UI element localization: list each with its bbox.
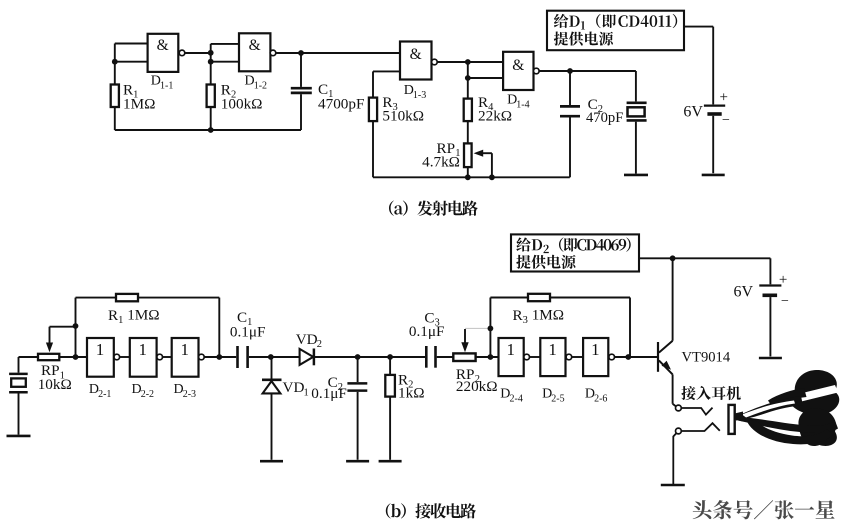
svg-text:1-2: 1-2 xyxy=(254,80,267,91)
svg-text:R3​ 1MΩ: R3​ 1MΩ xyxy=(513,307,565,326)
svg-text:1: 1 xyxy=(507,340,516,359)
svg-text:22kΩ: 22kΩ xyxy=(478,108,512,125)
svg-text:510kΩ: 510kΩ xyxy=(382,108,424,125)
wire - emitter down xyxy=(673,374,676,406)
wire - D1-3 out to D1-4 xyxy=(437,62,503,99)
svg-text:10kΩ: 10kΩ xyxy=(38,376,72,393)
power wire from box1 xyxy=(684,27,713,105)
jack contact 2 xyxy=(681,423,719,431)
label D2-4 xyxy=(500,386,523,404)
wire - RP2 to D2-4 xyxy=(476,356,499,358)
wire - D1-1 input feedback vertical xyxy=(115,44,147,131)
wire - feedback vertical left xyxy=(75,298,77,357)
svg-text:1-4: 1-4 xyxy=(516,100,529,111)
wire - D2-6 out to base xyxy=(615,356,657,358)
svg-text:1-3: 1-3 xyxy=(413,90,426,101)
headphone plug xyxy=(729,405,735,434)
wire - feedback2 down right xyxy=(629,298,631,358)
gate U D2-3 (inverter) xyxy=(172,338,205,377)
node - C2 tap (bottom) xyxy=(355,354,361,360)
jack terminal 1 xyxy=(676,405,682,411)
label VT9014 xyxy=(682,349,731,365)
svg-text:−: − xyxy=(781,294,789,309)
wire - D1-4 out to buzzer xyxy=(539,70,636,72)
svg-text:&: & xyxy=(157,37,169,54)
gate U D1-3 (NAND) xyxy=(400,42,437,80)
label D2-6 xyxy=(585,386,608,404)
text box2 line1 xyxy=(516,238,630,254)
resistor R3 (fb bottom) xyxy=(490,294,630,301)
svg-text:1: 1 xyxy=(304,387,309,398)
gate U D1-1 (NAND) xyxy=(148,34,185,72)
microphone BM xyxy=(9,357,28,435)
node - VD1 tap xyxy=(268,354,274,360)
svg-text:2: 2 xyxy=(317,339,322,350)
wire - D1-3 second input via R3 xyxy=(373,71,400,97)
svg-text:2-5: 2-5 xyxy=(551,393,564,404)
label D2-3 xyxy=(174,382,197,400)
label R2 1k xyxy=(398,372,424,402)
svg-text:1MΩ: 1MΩ xyxy=(123,95,155,112)
node - C1 tap xyxy=(298,50,304,56)
resistor R3 (top) xyxy=(369,98,377,122)
wire - C3 to RP2 xyxy=(437,356,454,358)
terminal bar - buzzer xyxy=(624,174,648,177)
label D2-5 xyxy=(542,386,565,404)
terminal bar - microphone xyxy=(7,435,31,438)
svg-text:+: + xyxy=(779,272,787,288)
svg-text:&: & xyxy=(249,37,261,54)
terminal bar - jack xyxy=(661,484,685,487)
jack terminal 2 xyxy=(676,428,682,434)
terminal bar - battery B2 xyxy=(759,357,782,360)
svg-text:2-2: 2-2 xyxy=(141,389,154,400)
svg-text:4700pF: 4700pF xyxy=(318,96,364,113)
gate U D1-2 (NAND) xyxy=(239,33,276,71)
resistor R2 xyxy=(207,85,215,108)
wire - mic to RP1 xyxy=(19,356,39,358)
label 6V battery1 xyxy=(683,89,730,128)
label C1 4700pF xyxy=(318,81,364,112)
watermark toutiao zhang yixing xyxy=(693,500,835,519)
caption (a) xyxy=(389,201,478,216)
label VD1 xyxy=(283,379,309,398)
node - feedback tap left xyxy=(73,323,79,360)
potentiometer RP2 xyxy=(453,353,475,361)
label C2 0.1uF (bottom) xyxy=(311,374,347,402)
wire - C1 to VD2 xyxy=(249,356,300,358)
text box1 line1 xyxy=(554,14,677,30)
node - C2 tap xyxy=(567,68,573,74)
label 6V battery2 xyxy=(734,272,790,309)
wiper RP1b arrow xyxy=(46,327,76,353)
battery B1 6V xyxy=(704,106,725,174)
headphone earpiece art xyxy=(735,370,840,446)
wire - feedback down right xyxy=(218,298,220,357)
label RP2 220k xyxy=(456,366,498,395)
svg-text:−: − xyxy=(722,113,730,128)
capacitor C2 (bottom) xyxy=(347,357,367,460)
svg-text:1: 1 xyxy=(591,340,600,359)
node - supply tap xyxy=(670,255,676,261)
label R3 510k xyxy=(382,94,424,125)
svg-text:2-3: 2-3 xyxy=(183,389,196,400)
label D1-1 xyxy=(151,73,174,91)
wire gap 4 xyxy=(530,356,541,358)
wire - R2 to C3 xyxy=(390,356,425,358)
svg-text:VT9014: VT9014 xyxy=(682,349,731,365)
diode VD1 (shunt) xyxy=(262,357,282,460)
wire gap 5 xyxy=(572,356,583,358)
wire - VD2 to C2 xyxy=(315,356,358,358)
svg-text:1kΩ: 1kΩ xyxy=(398,385,424,402)
resistor R4 xyxy=(464,99,472,122)
gate U D2-4 (inverter) xyxy=(499,338,530,376)
svg-text:0.1μF: 0.1μF xyxy=(230,324,266,341)
text box2 line2 xyxy=(516,255,575,269)
svg-text:100kΩ: 100kΩ xyxy=(221,95,263,112)
label jieru erji xyxy=(681,386,740,400)
wiper RP1 arrow xyxy=(474,150,492,178)
svg-text:1: 1 xyxy=(548,340,557,359)
label R2 100k xyxy=(221,82,263,113)
buzzer HA (sounder) xyxy=(627,71,647,174)
svg-text:0.1μF: 0.1μF xyxy=(311,385,347,402)
gate U D1-4 (NAND) xyxy=(503,52,539,90)
resistor R1 (fb bottom) xyxy=(76,294,220,301)
terminal bar - R2b xyxy=(379,460,402,463)
wire - lower rail (a) xyxy=(373,176,570,178)
gate U D2-2 (inverter) xyxy=(130,338,163,377)
label R3 1M fb xyxy=(513,307,565,326)
wire - jack to ground xyxy=(673,433,676,484)
node - rail R2 junction xyxy=(208,127,214,133)
label RP1 4.7k xyxy=(422,140,460,171)
wire - feedback2 vertical left xyxy=(489,298,491,358)
svg-text:+: + xyxy=(720,89,728,105)
svg-text:4.7kΩ: 4.7kΩ xyxy=(422,154,460,171)
label RP1 10k xyxy=(38,362,72,393)
svg-text:220kΩ: 220kΩ xyxy=(456,378,498,395)
node - fb2 join xyxy=(625,354,631,360)
label D2-1 xyxy=(89,382,112,400)
label D1-2 xyxy=(245,73,268,91)
jack contact 1 xyxy=(681,408,712,415)
wire - bottom rail of oscillator xyxy=(115,129,301,131)
battery B2 6V xyxy=(759,286,781,357)
gate U D2-5 (inverter) xyxy=(540,338,571,376)
label D1-4 xyxy=(507,93,530,111)
wire - D1-2 out to D1-3 xyxy=(276,52,400,54)
node - D1-2 junctions xyxy=(208,50,214,65)
svg-text:6V: 6V xyxy=(734,283,754,300)
node - fb2 taps xyxy=(488,326,494,360)
svg-text:VD: VD xyxy=(296,331,318,348)
node - R2 tap xyxy=(387,354,393,360)
wiper RP2 arrow xyxy=(461,328,490,352)
node - rail junctions xyxy=(465,174,495,180)
label D2-2 xyxy=(132,382,155,400)
wire gap 2 xyxy=(163,356,172,358)
label VD2 xyxy=(296,331,322,350)
transistor Q VT9014 xyxy=(658,341,673,375)
wire - D2-3 out xyxy=(204,356,236,358)
node - R4 junctions xyxy=(465,59,471,81)
svg-text:0.1μF: 0.1μF xyxy=(409,323,445,340)
caption (b) xyxy=(386,503,476,518)
diode VD2 (series) xyxy=(300,349,314,366)
node - D1-1 input junction xyxy=(112,59,118,65)
text box1 line2 xyxy=(554,32,613,46)
terminal bar - VD1 xyxy=(260,460,283,463)
gate U D2-1 (inverter) xyxy=(87,338,120,377)
capacitor C3 (series) xyxy=(426,346,435,368)
gate U D2-6 (inverter) xyxy=(583,338,614,376)
terminal bar - battery B1 xyxy=(702,174,725,177)
resistor R1 (top) xyxy=(111,85,119,108)
wire - supply to battery2 xyxy=(769,258,771,284)
svg-text:1: 1 xyxy=(139,340,148,359)
svg-text:2-4: 2-4 xyxy=(510,393,523,404)
label R1 1M xyxy=(123,82,155,113)
label R1 1M fb xyxy=(108,307,160,326)
svg-text:1: 1 xyxy=(96,340,105,359)
svg-text:2-6: 2-6 xyxy=(594,393,607,404)
svg-text:R1​ 1MΩ: R1​ 1MΩ xyxy=(108,307,160,326)
svg-text:VD: VD xyxy=(283,379,305,396)
label C1 0.1uF (bottom) xyxy=(230,309,266,340)
wire - D1-1 out to D1-2 in xyxy=(185,44,239,130)
wire - RP1 to D2-1 xyxy=(59,356,87,358)
capacitor C2 (top) xyxy=(560,71,580,177)
label box - power for D1 CD4011 xyxy=(547,11,684,51)
wire - R3 to rail xyxy=(372,121,374,177)
svg-text:1: 1 xyxy=(180,340,189,359)
wire - supply line xyxy=(639,257,770,259)
potentiometer RP1 (top) xyxy=(464,143,472,177)
terminal bar - C2b xyxy=(346,460,369,463)
wire - R4 to RP1 xyxy=(467,121,469,143)
resistor R2 (bottom) xyxy=(385,357,395,460)
label D1-3 xyxy=(404,83,427,101)
svg-text:&: & xyxy=(512,57,524,74)
label box - power for D2 CD4069 xyxy=(511,234,639,271)
capacitor C1 (top) xyxy=(291,53,312,130)
wire - C2 to R2 xyxy=(358,356,391,358)
label R4 22k xyxy=(478,94,512,125)
svg-text:&: & xyxy=(410,46,422,63)
wire gap 1 xyxy=(120,356,130,358)
wire - collector up xyxy=(672,258,674,341)
svg-text:6V: 6V xyxy=(683,103,703,120)
svg-text:2-1: 2-1 xyxy=(98,389,111,400)
potentiometer RP1 (bottom) xyxy=(38,354,59,360)
label C3 0.1uF xyxy=(409,309,445,340)
capacitor C1 (bottom, series) xyxy=(238,346,248,368)
svg-text:470pF: 470pF xyxy=(586,110,623,126)
svg-text:1-1: 1-1 xyxy=(160,80,173,91)
node - feedback join xyxy=(216,354,222,360)
label C2 470pF xyxy=(586,96,623,126)
